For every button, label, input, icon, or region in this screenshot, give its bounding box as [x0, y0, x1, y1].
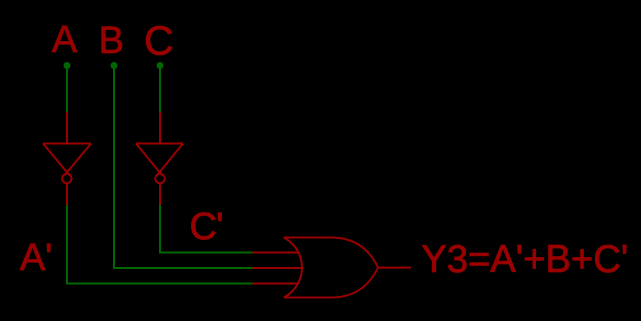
svg-text:Y3=A'+B+C': Y3=A'+B+C' — [421, 238, 628, 281]
svg-text:B: B — [99, 20, 124, 62]
wire A vertical green — [66, 68, 68, 112]
wire B stub to OR gate red — [253, 267, 303, 269]
wire C' horizontal green — [159, 252, 253, 254]
wire C' out of inverter red — [159, 184, 161, 205]
node A pin dot — [64, 62, 71, 69]
svg-text:C': C' — [190, 206, 224, 248]
svg-text:A: A — [52, 19, 78, 61]
svg-text:C: C — [144, 17, 174, 63]
inverter U1 triangle — [43, 144, 91, 176]
or-gate U3 — [284, 238, 378, 298]
svg-text:A': A' — [20, 237, 52, 279]
node B pin dot — [111, 62, 118, 69]
wire A into inverter red — [66, 112, 68, 144]
inverter U2 bubble — [155, 174, 164, 183]
wire C into inverter red — [159, 112, 161, 144]
wire A' vertical green — [66, 205, 68, 284]
wire C' vertical green — [159, 205, 161, 253]
wire C' stub to OR gate red — [253, 252, 299, 254]
wire A' out of inverter red — [66, 184, 68, 205]
inverter U2 triangle — [136, 144, 183, 176]
wire A' horizontal green — [66, 283, 253, 285]
wire A' stub to OR gate red — [253, 283, 299, 285]
wire C vertical green — [159, 68, 161, 112]
inverter U1 bubble — [62, 174, 71, 183]
wire Y3 output red — [378, 267, 411, 269]
wire B vertical green — [113, 68, 115, 268]
node C pin dot — [157, 62, 164, 69]
wire B horizontal green — [113, 267, 253, 269]
